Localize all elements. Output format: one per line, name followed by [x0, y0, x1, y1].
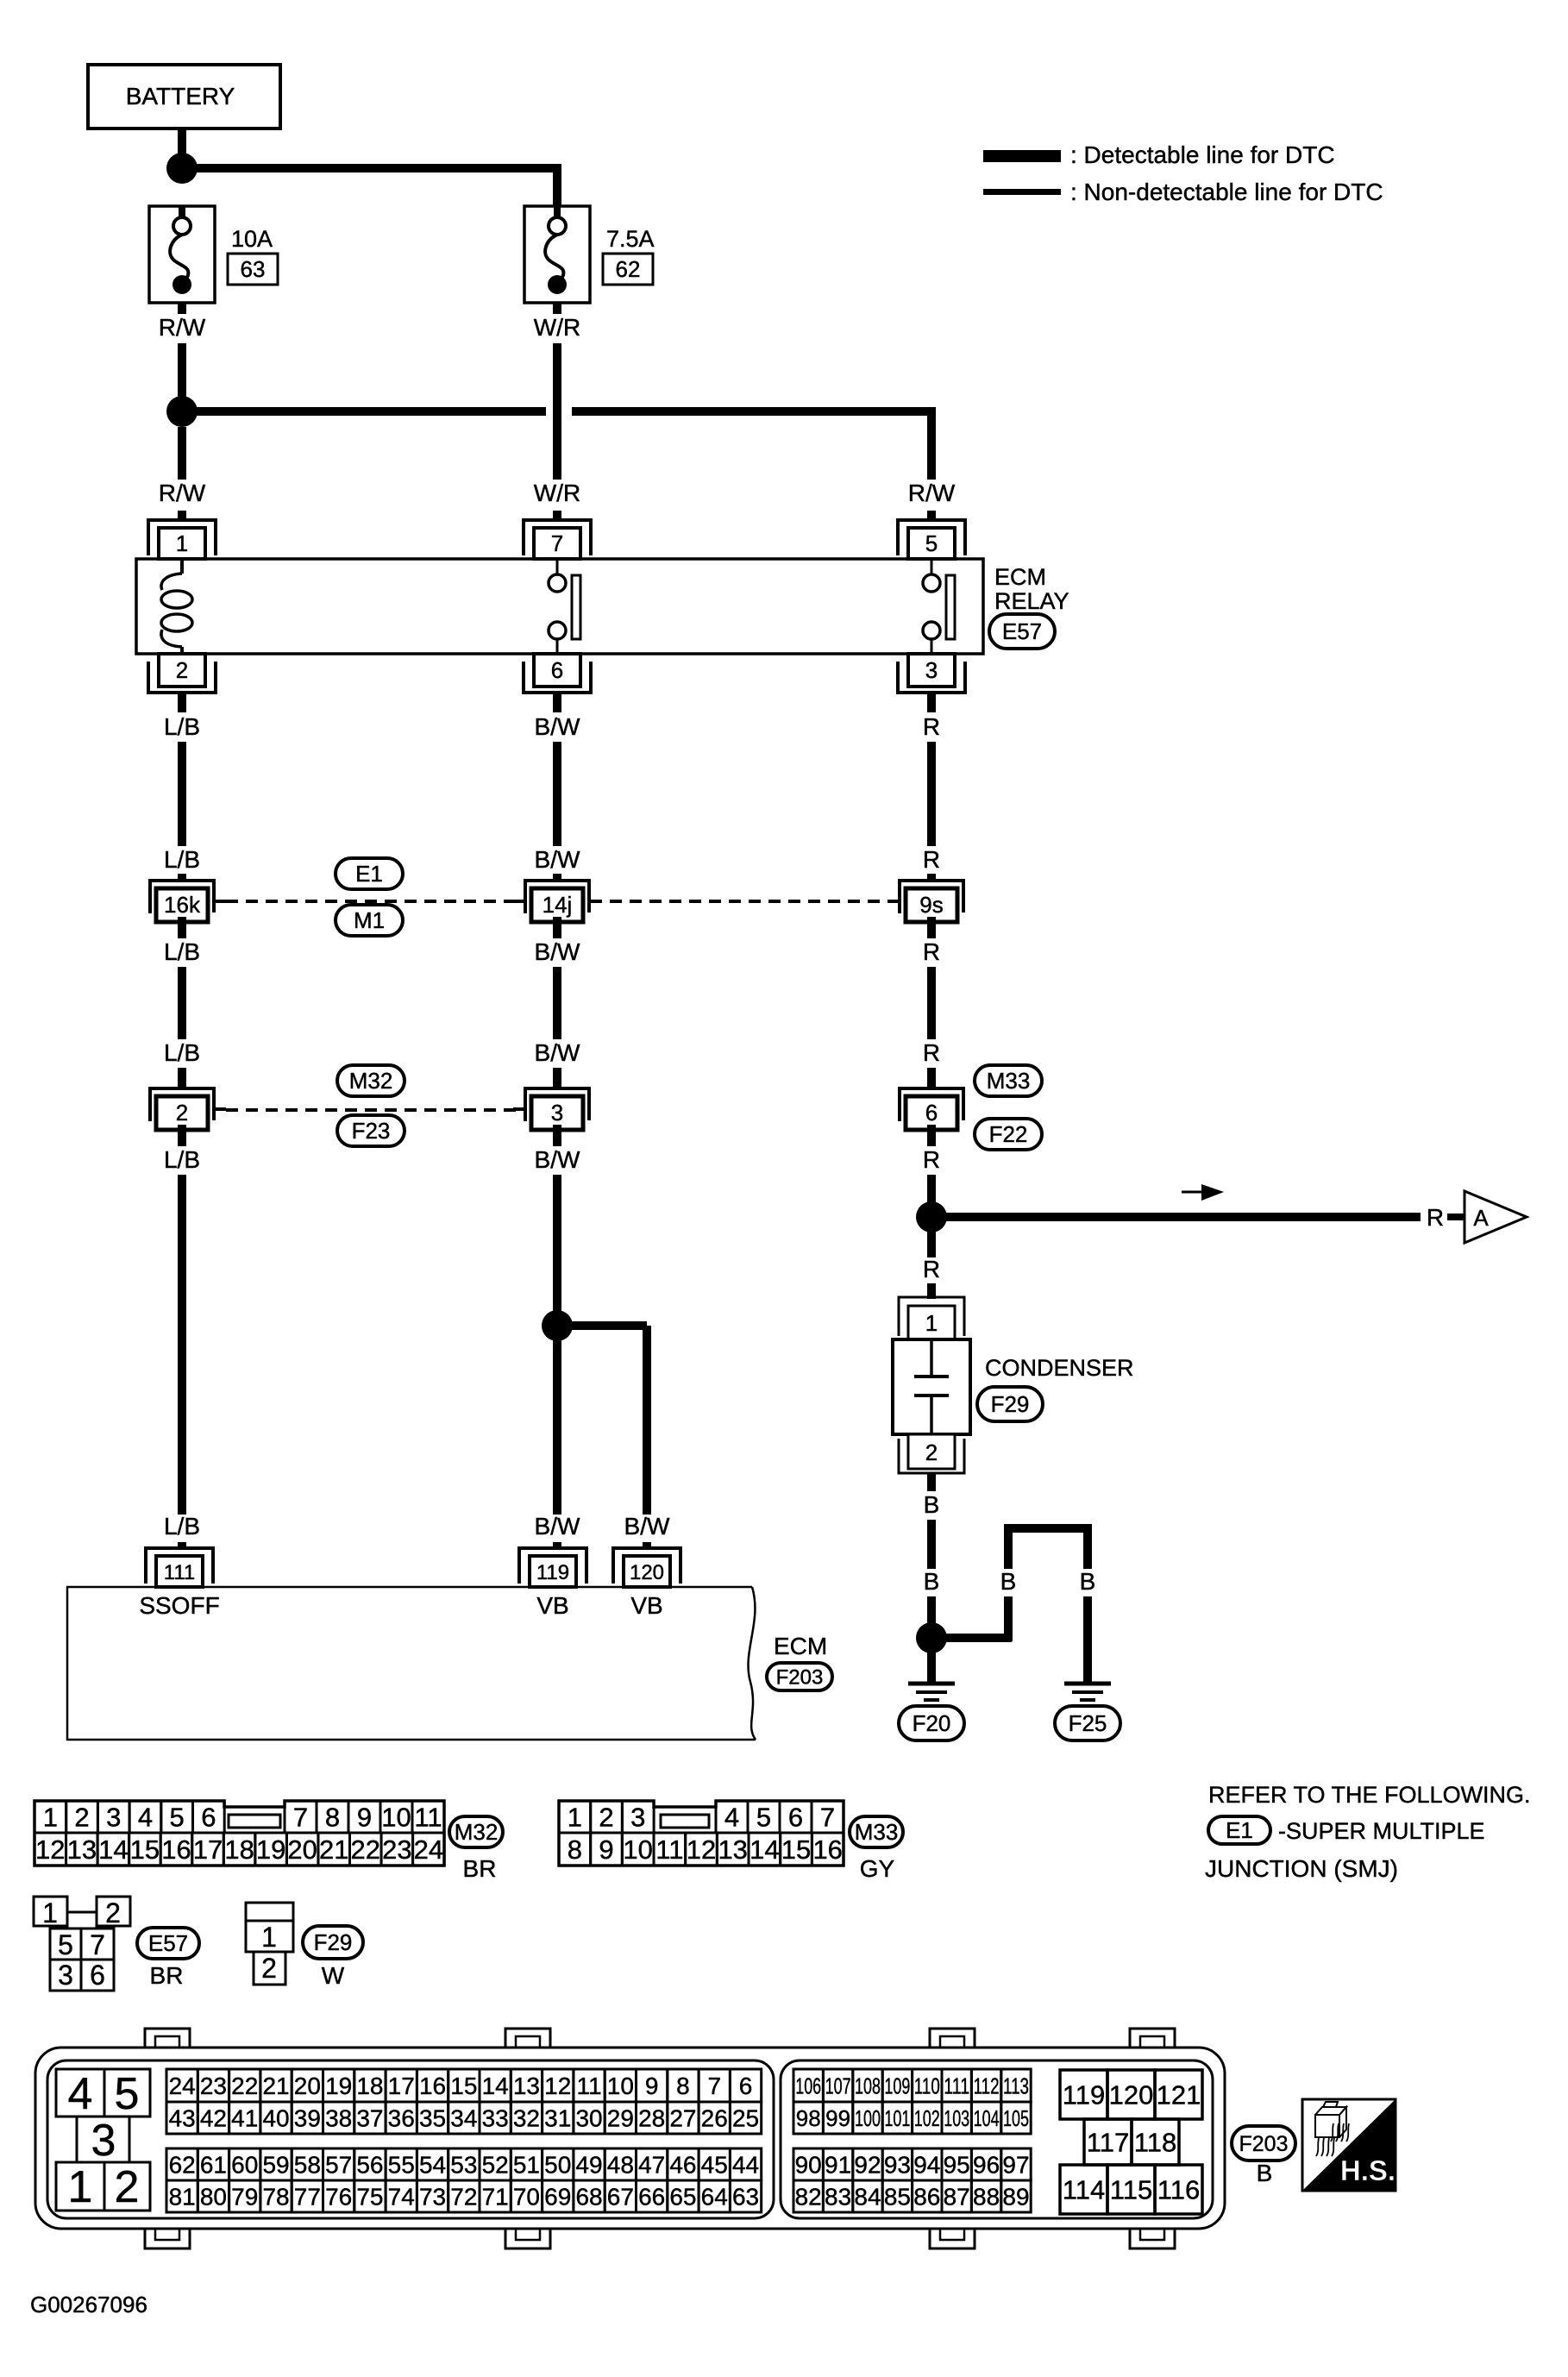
svg-text:R: R — [923, 1146, 940, 1173]
svg-text:121: 121 — [1157, 2080, 1201, 2110]
svg-text:F203: F203 — [1239, 2132, 1289, 2156]
svg-text:9: 9 — [599, 1834, 613, 1865]
svg-text:109: 109 — [884, 2073, 910, 2098]
svg-text:48: 48 — [607, 2152, 634, 2179]
svg-text:103: 103 — [944, 2105, 969, 2131]
svg-text:90: 90 — [795, 2152, 822, 2179]
svg-text:F22: F22 — [989, 1121, 1028, 1147]
svg-text:R/W: R/W — [159, 480, 206, 506]
svg-text:F23: F23 — [352, 1118, 391, 1144]
svg-text:B: B — [924, 1568, 940, 1595]
svg-text:10: 10 — [623, 1834, 652, 1865]
svg-text:101: 101 — [884, 2105, 910, 2131]
svg-text:2: 2 — [599, 1803, 613, 1833]
svg-text:69: 69 — [544, 2184, 571, 2211]
svg-text:6: 6 — [925, 1100, 938, 1126]
svg-text:3: 3 — [91, 2116, 116, 2166]
svg-text:3: 3 — [925, 657, 938, 683]
svg-text:R: R — [923, 846, 940, 873]
svg-text:L/B: L/B — [164, 1039, 200, 1066]
svg-text:92: 92 — [854, 2152, 881, 2179]
svg-text:13: 13 — [718, 1834, 747, 1865]
svg-text:B/W: B/W — [535, 713, 580, 740]
svg-text:10: 10 — [381, 1803, 411, 1833]
svg-text:54: 54 — [419, 2152, 446, 2179]
svg-text:88: 88 — [973, 2184, 1000, 2211]
svg-text:6: 6 — [551, 657, 563, 683]
svg-text:57: 57 — [325, 2152, 352, 2179]
svg-text:66: 66 — [638, 2184, 665, 2211]
svg-text:BR: BR — [463, 1855, 497, 1882]
svg-text:39: 39 — [294, 2105, 321, 2132]
svg-text:37: 37 — [356, 2105, 383, 2132]
svg-text:24: 24 — [414, 1834, 443, 1865]
svg-text:B: B — [1080, 1568, 1096, 1595]
svg-text:21: 21 — [319, 1834, 348, 1865]
svg-text:53: 53 — [450, 2152, 477, 2179]
svg-text:70: 70 — [513, 2184, 540, 2211]
svg-text:L/B: L/B — [164, 846, 200, 873]
svg-text:11: 11 — [414, 1803, 442, 1833]
svg-text:L/B: L/B — [164, 713, 200, 740]
svg-text:18: 18 — [356, 2073, 383, 2099]
svg-text:1: 1 — [568, 1803, 582, 1833]
svg-text:25: 25 — [732, 2105, 759, 2132]
svg-text:14j: 14j — [543, 892, 573, 918]
svg-text:75: 75 — [356, 2184, 383, 2211]
svg-text:R: R — [1427, 1204, 1444, 1231]
svg-text:34: 34 — [450, 2105, 477, 2132]
svg-text:9: 9 — [645, 2073, 659, 2099]
svg-text:60: 60 — [231, 2152, 258, 2179]
svg-text:28: 28 — [638, 2105, 665, 2132]
svg-text:1: 1 — [42, 1897, 58, 1929]
svg-text:L/B: L/B — [164, 1513, 200, 1540]
svg-text:89: 89 — [1002, 2184, 1029, 2211]
svg-text:R: R — [923, 713, 940, 740]
svg-text:20: 20 — [287, 1834, 317, 1865]
svg-text:1: 1 — [68, 2162, 93, 2212]
svg-text:1: 1 — [925, 1310, 938, 1336]
svg-text:22: 22 — [231, 2073, 258, 2099]
svg-text:20: 20 — [294, 2073, 321, 2099]
svg-text:B: B — [1257, 2160, 1273, 2186]
svg-text:5: 5 — [925, 530, 938, 556]
svg-text:5: 5 — [58, 1929, 73, 1960]
svg-text:ECM: ECM — [774, 1633, 827, 1659]
svg-text:73: 73 — [419, 2184, 446, 2211]
svg-text:E57: E57 — [1002, 618, 1042, 644]
svg-text:111: 111 — [944, 2073, 969, 2098]
svg-text:62: 62 — [169, 2152, 196, 2179]
svg-text:102: 102 — [914, 2105, 940, 2131]
svg-text:5: 5 — [756, 1803, 771, 1833]
svg-text:120: 120 — [630, 1561, 664, 1584]
svg-text:105: 105 — [1003, 2105, 1029, 2131]
svg-text:B: B — [924, 1491, 940, 1518]
svg-text:17: 17 — [388, 2073, 415, 2099]
svg-text:83: 83 — [825, 2184, 851, 2211]
svg-text:52: 52 — [482, 2152, 509, 2179]
svg-text:14: 14 — [750, 1834, 779, 1865]
svg-text:9s: 9s — [919, 892, 943, 918]
svg-text:7: 7 — [90, 1929, 105, 1960]
svg-text:16: 16 — [161, 1834, 191, 1865]
svg-text:112: 112 — [974, 2073, 1000, 2098]
svg-text:17: 17 — [193, 1834, 223, 1865]
svg-text:8: 8 — [325, 1803, 340, 1833]
svg-text:96: 96 — [973, 2152, 1000, 2179]
svg-text:19: 19 — [325, 2073, 352, 2099]
svg-text:R/W: R/W — [159, 314, 206, 341]
svg-text:M32: M32 — [455, 1819, 499, 1845]
svg-text:E1: E1 — [1226, 1817, 1253, 1843]
svg-text:11: 11 — [655, 1834, 683, 1865]
svg-text:B/W: B/W — [535, 1146, 580, 1173]
svg-text:6: 6 — [739, 2073, 753, 2099]
svg-text:120: 120 — [1109, 2080, 1154, 2110]
svg-text:10A: 10A — [231, 226, 273, 252]
svg-text:3: 3 — [106, 1803, 121, 1833]
svg-text:85: 85 — [884, 2184, 911, 2211]
svg-text:16: 16 — [812, 1834, 842, 1865]
svg-text:8: 8 — [676, 2073, 690, 2099]
svg-text:72: 72 — [450, 2184, 477, 2211]
svg-text:10: 10 — [607, 2073, 634, 2099]
svg-text:2: 2 — [176, 657, 188, 683]
svg-text:77: 77 — [294, 2184, 321, 2211]
svg-text:110: 110 — [914, 2073, 940, 2098]
svg-text:14: 14 — [482, 2073, 509, 2099]
svg-text:97: 97 — [1002, 2152, 1029, 2179]
svg-text:16: 16 — [419, 2073, 446, 2099]
svg-text:7: 7 — [551, 530, 563, 556]
svg-text:3: 3 — [551, 1100, 563, 1126]
svg-text:12: 12 — [544, 2073, 571, 2099]
svg-text:49: 49 — [575, 2152, 602, 2179]
svg-text:65: 65 — [669, 2184, 696, 2211]
svg-text:30: 30 — [575, 2105, 602, 2132]
svg-text:R: R — [923, 938, 940, 965]
svg-text:23: 23 — [200, 2073, 227, 2099]
svg-text:2: 2 — [105, 1897, 121, 1929]
svg-text:6: 6 — [788, 1803, 803, 1833]
svg-text:12: 12 — [35, 1834, 65, 1865]
svg-text:5: 5 — [115, 2069, 140, 2119]
svg-text:61: 61 — [200, 2152, 227, 2179]
svg-text:W/R: W/R — [534, 314, 580, 341]
svg-text:RELAY: RELAY — [994, 588, 1069, 614]
svg-text:27: 27 — [669, 2105, 696, 2132]
svg-text:ECM: ECM — [994, 564, 1046, 590]
svg-text:29: 29 — [607, 2105, 634, 2132]
svg-text:M33: M33 — [855, 1819, 899, 1845]
svg-text:2: 2 — [261, 1953, 277, 1984]
svg-text:51: 51 — [513, 2152, 540, 2179]
svg-text:15: 15 — [450, 2073, 477, 2099]
svg-text:4: 4 — [138, 1803, 153, 1833]
svg-text:R/W: R/W — [908, 480, 956, 506]
svg-text:2: 2 — [74, 1803, 89, 1833]
svg-text:21: 21 — [262, 2073, 289, 2099]
svg-text:113: 113 — [1003, 2073, 1029, 2098]
svg-text:41: 41 — [231, 2105, 258, 2132]
svg-text:6: 6 — [90, 1960, 105, 1991]
svg-text:19: 19 — [256, 1834, 285, 1865]
svg-text:115: 115 — [1110, 2175, 1152, 2205]
svg-text:3: 3 — [630, 1803, 645, 1833]
svg-text:81: 81 — [169, 2184, 196, 2211]
svg-text:16k: 16k — [164, 892, 201, 918]
svg-text:2: 2 — [115, 2162, 140, 2212]
svg-text:14: 14 — [98, 1834, 128, 1865]
svg-text:B/W: B/W — [535, 846, 580, 873]
svg-text:1: 1 — [43, 1803, 58, 1833]
svg-text:76: 76 — [325, 2184, 352, 2211]
svg-text:E57: E57 — [148, 1930, 188, 1956]
svg-text:JUNCTION (SMJ): JUNCTION (SMJ) — [1205, 1855, 1398, 1882]
svg-text:: Detectable line for DTC: : Detectable line for DTC — [1070, 141, 1335, 168]
svg-text:47: 47 — [638, 2152, 665, 2179]
svg-text:23: 23 — [382, 1834, 411, 1865]
svg-text:15: 15 — [781, 1834, 811, 1865]
svg-text:40: 40 — [262, 2105, 289, 2132]
svg-text:91: 91 — [825, 2152, 851, 2179]
svg-text:E1: E1 — [355, 861, 383, 887]
svg-text:F25: F25 — [1069, 1710, 1107, 1736]
svg-text:32: 32 — [513, 2105, 540, 2132]
svg-text:74: 74 — [388, 2184, 415, 2211]
svg-text:116: 116 — [1157, 2175, 1200, 2205]
svg-text:B/W: B/W — [624, 1513, 670, 1540]
svg-text:BR: BR — [150, 1962, 184, 1989]
svg-text:119: 119 — [1063, 2080, 1105, 2110]
svg-text:84: 84 — [854, 2184, 881, 2211]
svg-text:M1: M1 — [354, 907, 385, 933]
svg-text:56: 56 — [356, 2152, 383, 2179]
svg-text:79: 79 — [231, 2184, 258, 2211]
svg-text:33: 33 — [482, 2105, 509, 2132]
svg-text:44: 44 — [732, 2152, 759, 2179]
svg-text:55: 55 — [388, 2152, 415, 2179]
svg-text:F29: F29 — [314, 1929, 353, 1955]
svg-text:18: 18 — [224, 1834, 254, 1865]
svg-text:31: 31 — [544, 2105, 571, 2132]
svg-text:50: 50 — [544, 2152, 571, 2179]
svg-text:BATTERY: BATTERY — [126, 83, 235, 110]
svg-text:VB: VB — [536, 1592, 568, 1619]
svg-text:100: 100 — [855, 2105, 881, 2131]
svg-text:67: 67 — [607, 2184, 634, 2211]
svg-text:1: 1 — [176, 530, 188, 556]
svg-text:B/W: B/W — [535, 938, 580, 965]
svg-text:63: 63 — [241, 256, 266, 282]
svg-text:5: 5 — [170, 1803, 185, 1833]
svg-text:9: 9 — [357, 1803, 372, 1833]
svg-text:12: 12 — [687, 1834, 716, 1865]
svg-text:L/B: L/B — [164, 1146, 200, 1173]
svg-text:F20: F20 — [913, 1710, 951, 1736]
svg-text:CONDENSER: CONDENSER — [985, 1355, 1134, 1381]
svg-text:36: 36 — [388, 2105, 415, 2132]
svg-text:B/W: B/W — [535, 1513, 580, 1540]
svg-text:38: 38 — [325, 2105, 352, 2132]
svg-text:99: 99 — [825, 2105, 850, 2131]
svg-text:B: B — [1000, 1568, 1017, 1595]
svg-text:98: 98 — [796, 2105, 821, 2131]
svg-text:6: 6 — [201, 1803, 216, 1833]
svg-text:106: 106 — [795, 2073, 821, 2098]
svg-text:107: 107 — [825, 2073, 851, 2098]
svg-text:13: 13 — [513, 2073, 540, 2099]
svg-text:11: 11 — [577, 2073, 602, 2099]
svg-text:-SUPER MULTIPLE: -SUPER MULTIPLE — [1278, 1818, 1485, 1844]
svg-text:82: 82 — [795, 2184, 822, 2211]
svg-text:8: 8 — [568, 1834, 582, 1865]
svg-text:1: 1 — [261, 1922, 277, 1953]
svg-text:B/W: B/W — [535, 1039, 580, 1066]
svg-text:42: 42 — [200, 2105, 227, 2132]
svg-text:26: 26 — [701, 2105, 728, 2132]
svg-text:13: 13 — [67, 1834, 97, 1865]
svg-text:H.S.: H.S. — [1340, 2154, 1396, 2186]
svg-text:7: 7 — [293, 1803, 308, 1833]
svg-text:L/B: L/B — [164, 938, 200, 965]
svg-text:7: 7 — [707, 2073, 721, 2099]
svg-text:7.5A: 7.5A — [606, 226, 655, 252]
svg-text:86: 86 — [913, 2184, 940, 2211]
svg-text:108: 108 — [855, 2073, 881, 2098]
svg-text:SSOFF: SSOFF — [139, 1592, 219, 1619]
svg-text:45: 45 — [701, 2152, 728, 2179]
svg-text:87: 87 — [944, 2184, 970, 2211]
svg-text:43: 43 — [169, 2105, 196, 2132]
svg-text:62: 62 — [616, 256, 641, 282]
svg-text:35: 35 — [419, 2105, 446, 2132]
svg-text:59: 59 — [262, 2152, 289, 2179]
svg-text:118: 118 — [1134, 2128, 1176, 2158]
svg-text:117: 117 — [1087, 2128, 1129, 2158]
svg-text:2: 2 — [176, 1100, 188, 1126]
svg-text:R: R — [923, 1039, 940, 1066]
svg-text:71: 71 — [482, 2184, 509, 2211]
svg-text:64: 64 — [701, 2184, 728, 2211]
svg-text:R: R — [923, 1256, 940, 1283]
svg-text:15: 15 — [130, 1834, 160, 1865]
svg-text:24: 24 — [169, 2073, 196, 2099]
svg-text:119: 119 — [536, 1561, 569, 1584]
svg-text:A: A — [1473, 1205, 1489, 1231]
svg-text:80: 80 — [200, 2184, 227, 2211]
svg-text:GY: GY — [860, 1855, 895, 1882]
svg-text:VB: VB — [630, 1592, 662, 1619]
svg-text:95: 95 — [944, 2152, 970, 2179]
svg-text:W/R: W/R — [534, 480, 580, 506]
svg-text:3: 3 — [58, 1960, 73, 1991]
svg-text:7: 7 — [820, 1803, 835, 1833]
svg-text:2: 2 — [925, 1439, 938, 1465]
svg-text:111: 111 — [164, 1561, 195, 1584]
svg-text:22: 22 — [351, 1834, 380, 1865]
svg-text:W: W — [322, 1962, 345, 1989]
svg-text:G00267096: G00267096 — [30, 2292, 147, 2317]
svg-text:114: 114 — [1063, 2175, 1105, 2205]
svg-text:REFER TO THE FOLLOWING.: REFER TO THE FOLLOWING. — [1208, 1782, 1531, 1808]
svg-text:F203: F203 — [776, 1665, 824, 1689]
svg-text:: Non-detectable line for DTC: : Non-detectable line for DTC — [1070, 179, 1383, 205]
svg-text:63: 63 — [732, 2184, 759, 2211]
svg-text:104: 104 — [974, 2105, 1000, 2131]
svg-text:4: 4 — [724, 1803, 739, 1833]
svg-text:93: 93 — [884, 2152, 911, 2179]
svg-text:46: 46 — [669, 2152, 696, 2179]
svg-text:68: 68 — [575, 2184, 602, 2211]
svg-text:F29: F29 — [991, 1391, 1030, 1417]
svg-text:78: 78 — [262, 2184, 289, 2211]
svg-text:4: 4 — [68, 2069, 93, 2119]
svg-text:M33: M33 — [987, 1068, 1031, 1094]
svg-text:94: 94 — [913, 2152, 940, 2179]
svg-text:M32: M32 — [349, 1068, 393, 1094]
svg-text:58: 58 — [294, 2152, 321, 2179]
